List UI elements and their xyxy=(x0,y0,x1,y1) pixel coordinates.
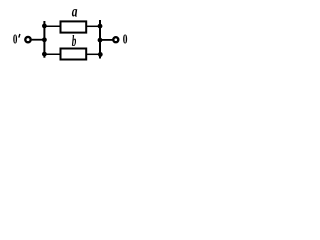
svg-text:0: 0 xyxy=(13,31,18,48)
background xyxy=(0,0,138,83)
terminal 0' (left circle) xyxy=(25,37,30,42)
svg-text:0: 0 xyxy=(123,31,128,47)
wire: box b to right bus xyxy=(87,53,101,55)
wire: left bus to box b xyxy=(44,53,61,55)
junction: right middle xyxy=(98,38,103,43)
wire: left bus to box a xyxy=(44,25,61,27)
junction: left top xyxy=(42,24,47,29)
resistor b (box) xyxy=(61,49,87,60)
wire: left terminal to left bus xyxy=(32,39,45,41)
prime mark of 0' xyxy=(19,34,20,38)
junction: right top xyxy=(98,24,103,29)
svg-text:a: a xyxy=(72,4,78,21)
wire: right vertical bus xyxy=(99,20,101,59)
wire: right bus to right terminal xyxy=(100,39,113,41)
junction: right bottom xyxy=(98,52,103,57)
wire: box a to right bus xyxy=(87,25,101,27)
terminal 0 (right circle) xyxy=(113,37,118,42)
resistor a (box) xyxy=(61,21,87,32)
svg-text:b: b xyxy=(72,33,77,50)
junction: left bottom xyxy=(42,52,47,57)
wire: left vertical bus xyxy=(43,21,45,58)
junction: left middle xyxy=(42,37,47,42)
